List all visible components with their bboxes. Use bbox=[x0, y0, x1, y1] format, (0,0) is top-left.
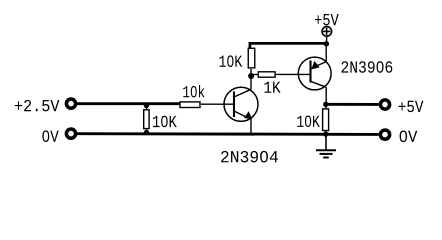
node junction dot on +2.5V rail bbox=[144, 103, 149, 108]
transistor Q1 2N3904 bbox=[224, 87, 258, 121]
label 0V right bbox=[400, 131, 418, 143]
label 10K (left vertical) bbox=[153, 116, 177, 128]
node junction dot +5V output bbox=[323, 102, 328, 107]
ground bbox=[316, 134, 336, 158]
wire +2.5V rail bbox=[77, 102, 180, 105]
terminal 0V right bbox=[380, 130, 389, 139]
resistor R4 1K bbox=[251, 74, 258, 76]
label +2.5V bbox=[15, 100, 60, 112]
label +5V right bbox=[399, 101, 424, 112]
label 10k bbox=[183, 85, 204, 97]
transistor Q2 2N3906 bbox=[298, 57, 331, 90]
wire base 2N3906 bbox=[276, 73, 311, 75]
wire +5V top rail bbox=[250, 43, 327, 48]
label 2N3906 bbox=[342, 61, 393, 73]
resistor R1 10K (left vertical) bbox=[146, 104, 148, 109]
terminal +5V right bbox=[380, 100, 389, 109]
wire +5V output bbox=[326, 103, 379, 106]
wire collector Q1 bbox=[250, 75, 252, 90]
node junction dot collector node bbox=[248, 73, 254, 79]
wire base 2N3904 bbox=[201, 103, 234, 105]
wire 0V rail bbox=[77, 132, 379, 136]
wire emitter Q2 bbox=[325, 43, 327, 61]
node junction dot 0V right bbox=[323, 131, 328, 136]
label 0V left bbox=[42, 130, 58, 142]
label 2N3904 bbox=[221, 151, 278, 163]
node junction dot top rail bbox=[324, 41, 329, 46]
resistor R3 10K (top vertical) bbox=[250, 69, 252, 75]
power +5V symbol bbox=[322, 27, 332, 44]
label 1K bbox=[264, 82, 280, 93]
wire collector Q2 bbox=[325, 87, 327, 104]
resistor R2 10k (series to base) bbox=[180, 102, 200, 108]
terminal 0V left bbox=[66, 129, 75, 138]
terminal +2.5V bbox=[66, 99, 75, 108]
label 10K (right) bbox=[297, 116, 320, 128]
label 10K (top) bbox=[219, 55, 242, 67]
label +5V top bbox=[315, 14, 339, 25]
resistor R5 10K (right vertical) bbox=[325, 104, 327, 108]
wire emitter Q1 bbox=[250, 119, 252, 134]
node junction dot on 0V rail bbox=[144, 130, 149, 135]
